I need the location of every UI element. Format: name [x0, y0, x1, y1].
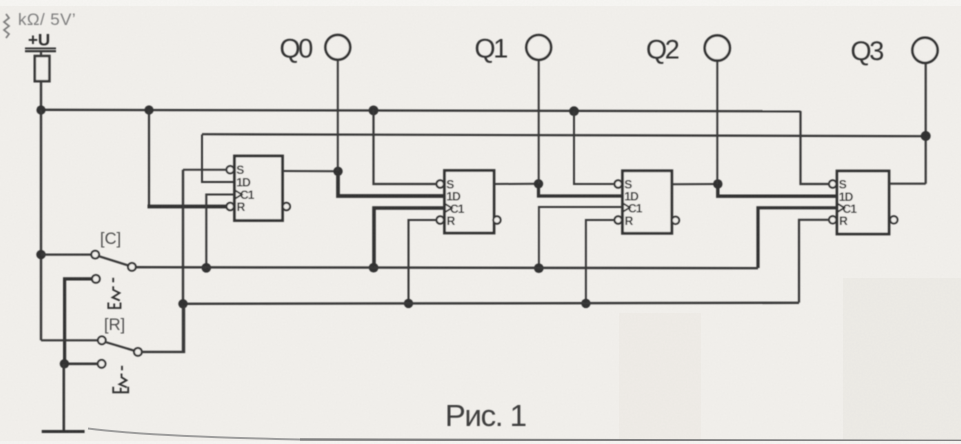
- wire +rail (top horizontal supply rail): [41, 110, 801, 112]
- U2 clock dynamic-input chevron: [445, 204, 452, 213]
- U2 R inversion bubble: [437, 216, 444, 223]
- wire U2 S to +rail: [374, 110, 437, 184]
- svg-text:[R]: [R]: [104, 316, 125, 334]
- U3 R inversion bubble: [615, 216, 622, 223]
- wire SR output to reset rail: [142, 306, 184, 352]
- flip-flop U1 (D trigger, box): [235, 156, 283, 221]
- svg-text:Рис. 1: Рис. 1: [445, 398, 526, 433]
- wire U3 S to +rail: [574, 111, 615, 184]
- wire U4 C1 / clock rail end (thick): [758, 208, 837, 268]
- switch SC ground contact: [92, 275, 100, 283]
- wire U1 Q output: [283, 170, 339, 172]
- value label 1 kΩ / 5V: [4, 10, 76, 38]
- flip-flop U4 (D trigger, box): [837, 171, 889, 234]
- svg-text:Q0: Q0: [280, 34, 313, 64]
- lamp Q1: [526, 35, 551, 60]
- switch SR ground contact: [98, 360, 106, 368]
- wire feedback rail (from Q3 node to D1): [202, 134, 926, 136]
- switch SC lever: [99, 256, 129, 265]
- page edge scan line (bottom): [88, 429, 300, 440]
- power terminal +U: [25, 31, 56, 52]
- wire U1 C1 to clock rail: [206, 195, 234, 268]
- wire U3 C1 to clock rail: [539, 207, 623, 268]
- wire U2 R to reset rail: [409, 220, 437, 303]
- wire to C-switch common: [41, 254, 91, 256]
- node rail1/FF2-S: [369, 106, 379, 116]
- wire lamp Q0 stem: [337, 60, 339, 172]
- wire U2 C1 to clock rail (thick): [374, 208, 445, 268]
- svg-text:Q1: Q1: [475, 34, 508, 64]
- wire SR ground contact to ground: [64, 362, 97, 365]
- svg-text:[C]: [C]: [100, 230, 121, 248]
- node Q3/feedback rail: [921, 131, 931, 141]
- node reset/U1-S/R-switch: [178, 299, 187, 308]
- pushbutton actuator for [R]: [113, 366, 128, 393]
- flip-flop U2 (D trigger, box): [445, 171, 495, 234]
- svg-text:+U: +U: [28, 31, 50, 50]
- wire ground drop: [62, 364, 65, 432]
- wire U2 Q output: [494, 183, 539, 185]
- resistor R1 1kΩ: [35, 56, 50, 81]
- wire resistor to +rail: [40, 81, 42, 110]
- wire supply vertical to R-switch common: [41, 339, 98, 341]
- svg-text:Q3: Q3: [851, 36, 884, 66]
- U1 S inversion bubble: [227, 166, 234, 173]
- svg-text:R: R: [237, 200, 246, 214]
- wire U4 S from +rail end: [801, 111, 830, 184]
- U1 R inversion bubble: [227, 203, 234, 210]
- switch SR output contact: [134, 348, 142, 356]
- node reset/U3: [581, 299, 590, 308]
- svg-text:R: R: [447, 214, 456, 228]
- lamp Q3: [912, 38, 937, 63]
- wire feedback drop to D1 input: [202, 135, 235, 183]
- wire +U to resistor: [40, 51, 42, 56]
- wire U1 R stub (thick): [148, 205, 227, 209]
- lamp Q2: [705, 35, 730, 60]
- node Q2: [713, 179, 722, 188]
- node supply/C-switch: [36, 250, 45, 259]
- node rail1/resistor: [36, 105, 45, 114]
- wire U3 Q output: [672, 183, 718, 185]
- ground: [42, 430, 85, 433]
- wire lamp Q3 stem / feedback vertical: [925, 63, 927, 184]
- node clock/U3: [534, 263, 544, 273]
- U1 clock dynamic-input chevron: [235, 190, 242, 199]
- U4 inverted output bubble: [890, 216, 897, 223]
- node rail1/FF1-R: [144, 105, 153, 114]
- wire Q2 to U4 1D (thick): [718, 184, 837, 196]
- wire left supply vertical: [40, 110, 42, 340]
- wire reset rail: [183, 303, 799, 304]
- U4 clock dynamic-input chevron: [837, 203, 844, 212]
- node reset/U2: [404, 299, 413, 308]
- U4 R inversion bubble: [829, 216, 836, 223]
- svg-text:kΩ/ 5V’: kΩ/ 5V’: [18, 10, 76, 29]
- switch SR lever: [105, 342, 134, 351]
- svg-text:R: R: [839, 214, 848, 228]
- U2 inverted output bubble: [493, 216, 500, 223]
- node Q0: [333, 167, 342, 176]
- wire lamp Q2 stem: [716, 60, 718, 184]
- switch SC common contact: [91, 251, 99, 259]
- U3 inverted output bubble: [672, 217, 679, 224]
- node clock/U1: [202, 263, 212, 273]
- U1 inverted output bubble: [283, 203, 290, 210]
- wire U1 S / reset vertical down to R-switch: [182, 170, 184, 352]
- wire U3 R to reset rail: [586, 220, 615, 303]
- node rail1/FF3-S: [569, 106, 579, 116]
- wire U1 R to +rail: [148, 110, 150, 207]
- U4 S inversion bubble: [829, 180, 836, 187]
- wire Q1 to U3 1D (thick): [539, 184, 623, 196]
- wire clock rail: [136, 267, 758, 268]
- flip-flop U3 (D trigger, box): [623, 171, 672, 234]
- wire Q0 to U2 1D (thick): [338, 171, 445, 196]
- svg-text:Q2: Q2: [646, 34, 679, 64]
- svg-text:R: R: [625, 214, 634, 228]
- wire U1 S stub: [183, 169, 226, 171]
- node ground junction: [60, 359, 69, 368]
- switch SR common contact: [98, 336, 106, 344]
- lamp Q0: [325, 35, 350, 60]
- wire SC ground contact to ground (thick): [65, 279, 92, 364]
- U3 S inversion bubble: [615, 180, 622, 187]
- wire U4 Q output: [889, 183, 926, 185]
- wire lamp Q1 stem: [538, 60, 540, 184]
- pushbutton actuator for [C]: [108, 278, 120, 308]
- node clock/U2: [369, 263, 379, 273]
- node Q1: [534, 179, 543, 188]
- U3 clock dynamic-input chevron: [623, 203, 630, 212]
- switch SC output contact: [128, 263, 136, 271]
- wire U4 R to reset rail end: [799, 220, 829, 303]
- U2 S inversion bubble: [437, 180, 444, 187]
